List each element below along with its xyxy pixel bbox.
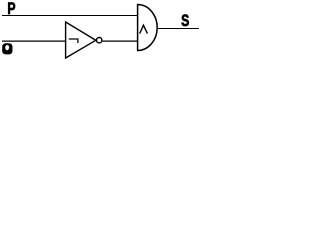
svg-text:S: S <box>181 12 189 30</box>
svg-text:P: P <box>7 0 15 18</box>
